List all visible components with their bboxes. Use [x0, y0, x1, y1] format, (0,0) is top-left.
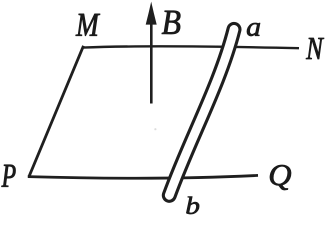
wire top rail M-N [83, 46, 299, 48]
label Q [270, 165, 291, 190]
label b [186, 197, 199, 214]
wire left edge P-M [29, 46, 84, 177]
arrow B head [146, 2, 157, 25]
label B [162, 11, 181, 34]
rod ab interior [169, 29, 234, 195]
rod ab outline [169, 29, 234, 195]
wire bottom rail P-Q [28, 175, 258, 178]
label N [306, 38, 324, 59]
label a [247, 23, 260, 36]
speck noise [154, 128, 156, 130]
label M [76, 14, 100, 36]
arrow B shaft [150, 23, 153, 104]
label P [2, 165, 16, 187]
